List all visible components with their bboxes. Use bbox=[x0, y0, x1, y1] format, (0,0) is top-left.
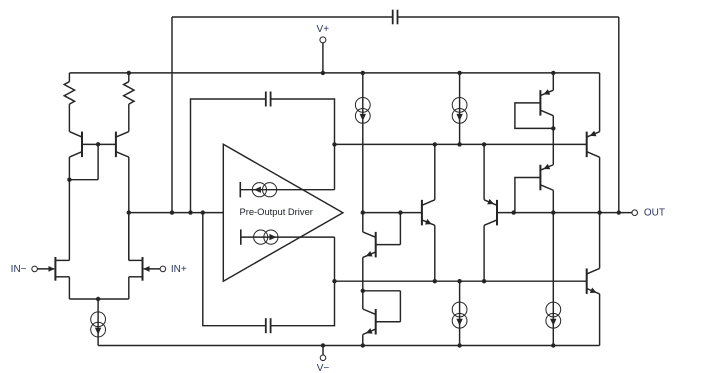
wire upper bias rail (y144) bbox=[335, 143, 587, 145]
V- terminal bbox=[321, 343, 325, 347]
wire driver output node bbox=[363, 212, 422, 214]
current source I6 (lower bias rail to V-) bbox=[459, 281, 461, 345]
svg-text:IN−: IN− bbox=[11, 264, 27, 275]
transistor J1 (IN- input JFET) bbox=[37, 268, 54, 270]
wire top compensation loop around driver bbox=[191, 99, 266, 213]
wire V+ top feedback rail with compensation capacitor bbox=[172, 16, 393, 18]
transistor Q4 (driver NPN) bbox=[421, 200, 423, 226]
transistor Q6 (mid PNP) bbox=[483, 144, 485, 199]
wire Q1-Q2 common base bbox=[82, 143, 116, 145]
svg-text:OUT: OUT bbox=[644, 208, 665, 219]
svg-text:V−: V− bbox=[317, 363, 330, 373]
transistor Q3 (diode NPN upper) bbox=[362, 213, 364, 232]
wire lower bias rail (y281) bbox=[335, 280, 587, 282]
svg-text:IN+: IN+ bbox=[171, 264, 187, 275]
transistor Q5 (diode NPN lower) bbox=[362, 291, 364, 309]
transistor Q2 (right mirror PNP) bbox=[115, 132, 117, 158]
node tail junction bbox=[96, 297, 100, 301]
resistor R2 bbox=[124, 82, 134, 104]
node V+ rail bbox=[69, 72, 599, 74]
capacitor C1 (top compensation) bbox=[392, 10, 394, 25]
transistor Q1 (left mirror PNP) bbox=[81, 132, 83, 158]
transistor Q7 (diode PNP top-right) bbox=[552, 73, 554, 90]
transistor J2 (IN+ input JFET) bbox=[144, 268, 160, 270]
svg-text:V+: V+ bbox=[317, 24, 330, 35]
current source I2 (upper, inside driver) bbox=[239, 182, 241, 197]
node Q7 base-collector junction bbox=[551, 126, 555, 130]
op-amp U1 (Pre-Output Driver triangle) bbox=[223, 144, 343, 281]
wire V- rail bbox=[98, 345, 599, 347]
wire right feedback vertical from top rail down to OUT node bbox=[618, 17, 620, 213]
wire bottom compensation loop around driver bbox=[203, 213, 266, 326]
capacitor C3 (lower driver cap) bbox=[265, 318, 267, 333]
transistor Q9 (output PNP) bbox=[599, 73, 601, 132]
current source I7 (OUT node to V-) bbox=[552, 213, 554, 346]
current source I4 (V+ to driver output node) bbox=[362, 73, 364, 213]
capacitor C2 (upper driver cap) bbox=[265, 92, 267, 107]
wire input-stage output to pre-output driver bbox=[129, 212, 224, 214]
node base-collector junction bbox=[67, 178, 71, 182]
node Q3 emitter / Q5 junction bbox=[361, 289, 365, 293]
svg-text:Pre-Output Driver: Pre-Output Driver bbox=[239, 206, 312, 217]
transistor Q8 (diode PNP mid-right) bbox=[552, 128, 554, 164]
current source I3 (lower, inside driver) bbox=[240, 229, 242, 244]
transistor Q10 (output NPN) bbox=[586, 268, 588, 294]
resistor R1 bbox=[64, 82, 74, 104]
current source I1 (input tail) bbox=[97, 299, 99, 346]
current source I5 (V+ to upper bias rail) bbox=[459, 73, 461, 144]
OUT terminal bbox=[632, 210, 638, 216]
IN+ terminal bbox=[160, 266, 166, 272]
wire OUT node bbox=[514, 212, 632, 214]
wire left feedback vertical from top rail down to input node bbox=[171, 17, 173, 213]
